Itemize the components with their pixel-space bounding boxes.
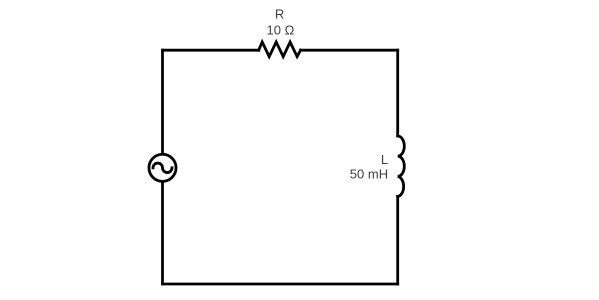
wire top-right segment (resistor to top-right corner) [301, 49, 398, 52]
svg-text:R: R [275, 6, 284, 21]
wire left lower segment (bottom-left corner to source) [161, 181, 164, 284]
AC voltage source V1 (circle) [149, 154, 176, 181]
wire bottom segment [163, 283, 398, 286]
inductor L [398, 136, 405, 197]
wire right upper segment (top-right corner to inductor) [396, 50, 399, 136]
AC voltage source V1 (sine symbol) [153, 163, 172, 173]
svg-text:L: L [381, 152, 388, 167]
resistor R [259, 42, 301, 57]
wire left upper segment (source to top-left corner) [161, 50, 164, 154]
svg-text:10 Ω: 10 Ω [267, 22, 295, 37]
wire top-left segment (top-left corner to resistor) [163, 49, 259, 52]
wire right lower segment (inductor to bottom-right corner) [396, 197, 399, 285]
svg-text:50 mH: 50 mH [350, 166, 388, 181]
